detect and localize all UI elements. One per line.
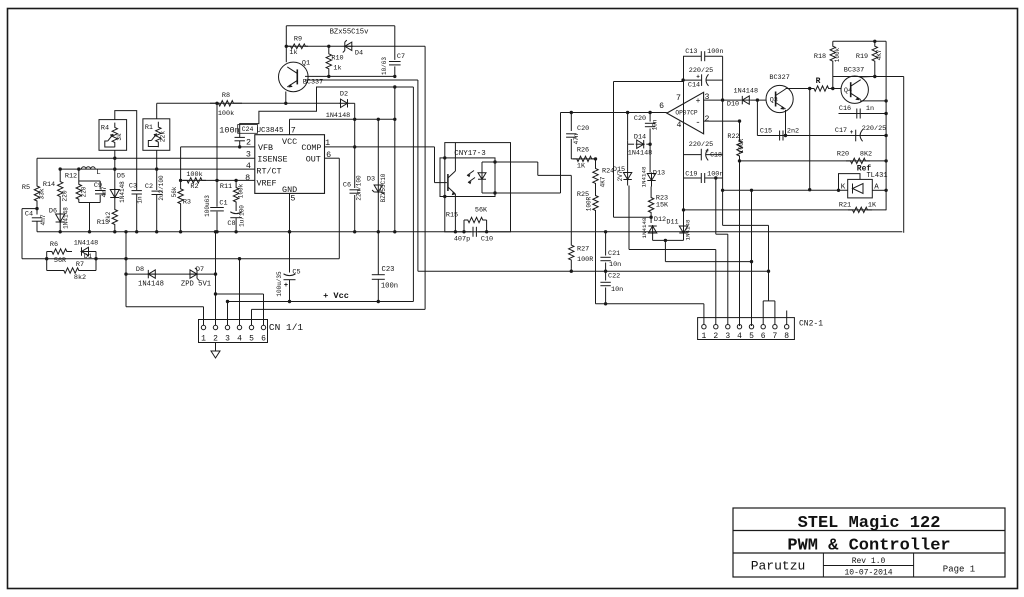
svg-text:5: 5 <box>249 335 254 344</box>
svg-text:1k: 1k <box>289 49 297 57</box>
svg-text:VFB: VFB <box>258 143 273 153</box>
svg-text:1N4148: 1N4148 <box>138 281 164 289</box>
svg-text:C1: C1 <box>219 200 227 208</box>
svg-text:7: 7 <box>676 94 681 103</box>
svg-text:1N4148: 1N4148 <box>641 217 648 238</box>
svg-text:Parutzu: Parutzu <box>751 559 806 574</box>
svg-text:OP07CP: OP07CP <box>675 110 698 117</box>
svg-text:10n: 10n <box>609 261 621 269</box>
svg-text:220/25: 220/25 <box>862 125 886 133</box>
svg-text:3: 3 <box>225 335 230 344</box>
svg-text:220: 220 <box>62 190 69 202</box>
svg-text:100k: 100k <box>186 171 202 179</box>
svg-text:6: 6 <box>261 335 266 344</box>
svg-text:1n: 1n <box>866 105 874 113</box>
svg-text:220/25: 220/25 <box>689 141 713 149</box>
svg-text:K: K <box>841 184 846 192</box>
svg-text:CNY17-3: CNY17-3 <box>454 150 486 158</box>
svg-text:L: L <box>96 169 101 177</box>
svg-text:+: + <box>284 282 288 290</box>
svg-text:1K: 1K <box>577 163 586 171</box>
svg-text:56K: 56K <box>475 207 488 215</box>
svg-text:R2: R2 <box>190 183 198 191</box>
svg-text:RT/CT: RT/CT <box>256 167 281 177</box>
svg-text:Q4: Q4 <box>844 87 852 95</box>
svg-text:1n: 1n <box>136 196 143 204</box>
svg-text:D11: D11 <box>666 219 678 227</box>
svg-text:C19: C19 <box>685 170 697 178</box>
svg-text:R20: R20 <box>837 151 849 159</box>
svg-text:4K7: 4K7 <box>600 176 607 187</box>
svg-text:3k: 3k <box>116 133 123 141</box>
svg-text:C10: C10 <box>481 236 493 244</box>
svg-text:C3: C3 <box>129 183 137 191</box>
svg-text:4: 4 <box>246 161 251 171</box>
svg-text:VCC: VCC <box>282 137 297 147</box>
svg-text:100k: 100k <box>218 110 234 118</box>
svg-text:1N4148: 1N4148 <box>685 219 692 240</box>
svg-text:4: 4 <box>237 335 242 344</box>
svg-text:ISENSE: ISENSE <box>257 155 287 165</box>
svg-text:R9: R9 <box>294 36 302 44</box>
svg-text:100R: 100R <box>738 138 745 153</box>
svg-text:R7: R7 <box>76 261 84 269</box>
svg-text:10n: 10n <box>652 119 659 130</box>
svg-text:8k2: 8k2 <box>74 274 86 282</box>
svg-text:4: 4 <box>677 121 682 130</box>
svg-text:R3: R3 <box>183 199 191 207</box>
svg-text:BZX55C10: BZX55C10 <box>380 173 387 202</box>
svg-text:1N4148: 1N4148 <box>119 181 126 203</box>
svg-text:BC327: BC327 <box>769 74 789 82</box>
svg-text:100u/35: 100u/35 <box>276 271 283 297</box>
svg-text:22k: 22k <box>159 131 166 143</box>
svg-text:R4: R4 <box>101 125 109 133</box>
svg-text:2u2/100: 2u2/100 <box>158 175 165 201</box>
svg-text:33k: 33k <box>39 188 46 200</box>
svg-text:+: + <box>705 148 709 155</box>
svg-text:1N4148: 1N4148 <box>628 150 652 158</box>
svg-text:R10: R10 <box>331 55 343 63</box>
svg-text:BZx55C15v: BZx55C15v <box>330 29 370 37</box>
svg-text:1N4148: 1N4148 <box>734 87 758 95</box>
svg-text:6: 6 <box>659 102 664 111</box>
svg-text:2V7: 2V7 <box>617 170 624 181</box>
svg-text:D8: D8 <box>136 266 144 274</box>
svg-text:8K2: 8K2 <box>860 151 872 159</box>
svg-text:220/25: 220/25 <box>689 67 713 75</box>
svg-text:1N4148: 1N4148 <box>74 240 98 248</box>
svg-text:4: 4 <box>737 332 742 341</box>
svg-text:15K: 15K <box>656 202 669 210</box>
svg-text:C5: C5 <box>292 269 300 277</box>
svg-text:10n: 10n <box>611 286 623 294</box>
svg-text:R6: R6 <box>50 241 58 249</box>
svg-text:+ Vcc: + Vcc <box>323 291 349 301</box>
svg-text:3: 3 <box>725 332 730 341</box>
svg-text:D10: D10 <box>727 100 739 108</box>
svg-text:STEL Magic 122: STEL Magic 122 <box>798 514 941 533</box>
svg-text:C2: C2 <box>145 183 153 191</box>
svg-text:2: 2 <box>246 137 251 147</box>
svg-text:7: 7 <box>291 125 296 135</box>
svg-text:C16: C16 <box>839 105 851 113</box>
svg-text:D12: D12 <box>654 216 666 224</box>
svg-text:COMP: COMP <box>301 143 321 153</box>
svg-text:-: - <box>695 118 700 128</box>
svg-text:D7: D7 <box>196 266 204 274</box>
svg-text:C6: C6 <box>343 182 351 190</box>
svg-text:C13: C13 <box>685 48 697 56</box>
svg-text:1: 1 <box>701 332 706 341</box>
svg-text:100n: 100n <box>219 126 239 136</box>
svg-text:100R: 100R <box>577 256 593 264</box>
svg-text:C17: C17 <box>835 127 847 135</box>
svg-text:R21: R21 <box>839 202 851 210</box>
svg-text:2n2: 2n2 <box>787 127 799 135</box>
svg-text:1N4148: 1N4148 <box>63 207 70 229</box>
svg-text:C14: C14 <box>688 82 700 90</box>
svg-text:1N4148: 1N4148 <box>326 112 350 120</box>
svg-text:C4: C4 <box>25 211 33 219</box>
svg-text:22n/100: 22n/100 <box>356 175 363 201</box>
svg-text:D14: D14 <box>634 134 646 142</box>
svg-text:R27: R27 <box>577 246 589 254</box>
svg-text:1k: 1k <box>333 65 341 73</box>
svg-text:R: R <box>816 77 821 86</box>
svg-text:Q1: Q1 <box>302 60 310 68</box>
svg-text:5: 5 <box>290 194 295 204</box>
svg-text:2: 2 <box>713 332 718 341</box>
svg-text:C8: C8 <box>227 220 235 228</box>
svg-text:+: + <box>850 129 854 136</box>
svg-text:R15: R15 <box>446 212 458 220</box>
svg-text:8: 8 <box>245 173 250 183</box>
svg-text:5: 5 <box>749 332 754 341</box>
svg-text:100n: 100n <box>381 283 398 291</box>
svg-text:7: 7 <box>772 332 777 341</box>
svg-text:100u63: 100u63 <box>204 195 211 217</box>
svg-text:Q3: Q3 <box>770 97 778 105</box>
svg-text:100k: 100k <box>237 183 244 198</box>
svg-text:R19: R19 <box>856 53 868 61</box>
svg-text:56k: 56k <box>171 186 178 197</box>
svg-text:220: 220 <box>80 186 87 197</box>
svg-text:CN2-1: CN2-1 <box>799 320 823 329</box>
svg-text:PWM & Controller: PWM & Controller <box>787 537 950 556</box>
svg-text:1K: 1K <box>868 202 877 210</box>
svg-text:A: A <box>874 184 879 192</box>
svg-text:3: 3 <box>246 150 251 160</box>
svg-text:R12: R12 <box>65 173 77 181</box>
svg-text:C24: C24 <box>242 126 254 133</box>
svg-text:C20: C20 <box>577 125 589 133</box>
svg-text:100k: 100k <box>834 47 841 62</box>
svg-text:R11: R11 <box>220 183 232 191</box>
svg-text:6: 6 <box>761 332 766 341</box>
svg-text:+: + <box>696 74 700 81</box>
svg-text:2: 2 <box>213 335 218 344</box>
svg-text:100R: 100R <box>586 196 593 211</box>
svg-text:R1: R1 <box>145 124 153 132</box>
svg-text:1u/100: 1u/100 <box>239 205 246 227</box>
svg-text:1N4148: 1N4148 <box>641 166 648 187</box>
svg-text:BC337: BC337 <box>844 67 864 75</box>
svg-text:4K7: 4K7 <box>876 49 883 60</box>
svg-text:ZPD 5V1: ZPD 5V1 <box>181 281 211 289</box>
svg-text:D1: D1 <box>84 253 92 261</box>
svg-text:1: 1 <box>201 335 206 344</box>
svg-text:10/63: 10/63 <box>381 57 388 75</box>
svg-text:C20: C20 <box>634 115 646 123</box>
svg-text:C18: C18 <box>710 152 722 159</box>
svg-text:D3: D3 <box>367 176 375 184</box>
svg-text:D2: D2 <box>340 91 348 99</box>
svg-text:D6: D6 <box>49 208 57 216</box>
svg-text:+: + <box>696 97 701 106</box>
svg-text:UC3845: UC3845 <box>256 127 284 135</box>
svg-text:R8: R8 <box>222 92 230 100</box>
svg-text:47n: 47n <box>573 133 580 144</box>
svg-text:Page 1: Page 1 <box>943 565 975 575</box>
svg-text:R18: R18 <box>814 53 826 61</box>
svg-text:2k2: 2k2 <box>105 211 112 222</box>
svg-text:D13: D13 <box>653 170 665 178</box>
svg-text:2: 2 <box>705 115 710 124</box>
svg-text:10-07-2014: 10-07-2014 <box>844 569 892 578</box>
svg-text:4n7: 4n7 <box>40 214 47 226</box>
svg-text:OUT: OUT <box>306 155 321 165</box>
svg-text:4n7: 4n7 <box>101 186 108 197</box>
svg-text:100n: 100n <box>707 48 723 56</box>
svg-text:R26: R26 <box>577 147 589 155</box>
svg-text:8: 8 <box>784 332 789 341</box>
svg-text:R5: R5 <box>22 184 30 192</box>
svg-text:TL431: TL431 <box>866 172 887 180</box>
svg-text:C15: C15 <box>760 127 772 135</box>
svg-text:D5: D5 <box>117 173 125 181</box>
svg-text:C7: C7 <box>397 53 405 61</box>
svg-text:CN 1/1: CN 1/1 <box>269 322 304 333</box>
svg-text:407p: 407p <box>454 236 470 244</box>
svg-text:56R: 56R <box>54 257 66 265</box>
svg-text:VREF: VREF <box>256 179 276 189</box>
svg-text:C23: C23 <box>382 266 395 274</box>
svg-text:C21: C21 <box>608 250 620 258</box>
svg-text:R14: R14 <box>43 181 55 189</box>
svg-text:Rev 1.0: Rev 1.0 <box>852 557 886 566</box>
svg-text:D4: D4 <box>355 50 363 58</box>
svg-text:C22: C22 <box>608 273 620 281</box>
